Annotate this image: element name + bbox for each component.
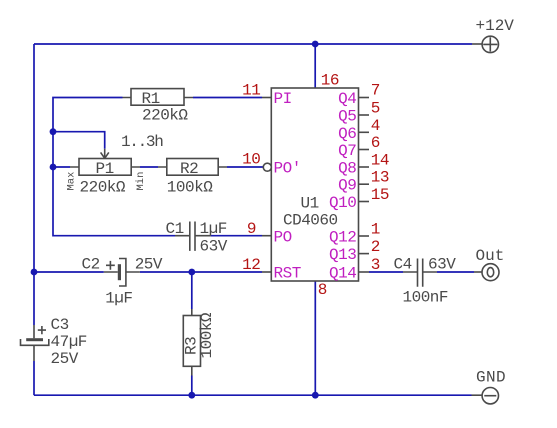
value C2 25V xyxy=(135,255,163,273)
pin Q8 stub xyxy=(338,160,369,178)
pin PO stub xyxy=(262,229,292,247)
pin number 7 xyxy=(371,81,380,99)
svg-text:7: 7 xyxy=(371,81,380,99)
pin Q13 stub xyxy=(329,246,369,264)
svg-text:1..3h: 1..3h xyxy=(121,133,163,151)
junction wiper branch xyxy=(50,128,57,135)
svg-text:P1: P1 xyxy=(96,160,114,178)
pin number 3 xyxy=(371,256,380,274)
svg-text:2: 2 xyxy=(371,238,380,256)
svg-text:1µF: 1µF xyxy=(105,290,132,308)
ground GND terminal xyxy=(472,369,507,404)
pin PO' bubble xyxy=(263,160,301,178)
supply +12V terminal xyxy=(472,17,514,52)
svg-text:11: 11 xyxy=(242,82,260,100)
svg-text:Q8: Q8 xyxy=(338,160,356,178)
svg-text:14: 14 xyxy=(371,152,389,170)
junction bottom rail R3 xyxy=(188,392,195,399)
label Min xyxy=(135,172,147,191)
svg-text:C4: C4 xyxy=(394,255,412,273)
wire C4 to Out xyxy=(437,271,474,273)
svg-text:220kΩ: 220kΩ xyxy=(80,179,126,197)
svg-text:12: 12 xyxy=(242,256,260,274)
svg-text:1: 1 xyxy=(371,221,380,239)
svg-text:Q7: Q7 xyxy=(338,142,356,160)
svg-text:Q12: Q12 xyxy=(329,229,356,247)
pin RST stub xyxy=(262,265,301,283)
value P1 220k xyxy=(80,179,126,197)
svg-text:Max: Max xyxy=(66,172,78,191)
label Max xyxy=(66,172,78,191)
junction C2 rail xyxy=(31,269,38,276)
svg-text:RST: RST xyxy=(274,265,301,283)
value R3 100k xyxy=(198,312,216,358)
wire pin8 drop xyxy=(314,281,316,395)
svg-text:100nF: 100nF xyxy=(403,289,449,307)
svg-text:+12V: +12V xyxy=(476,17,515,35)
svg-text:U1: U1 xyxy=(301,194,319,212)
wire C2 left from rail xyxy=(34,271,104,273)
svg-text:PI: PI xyxy=(274,90,292,108)
capacitor C4 xyxy=(394,255,438,287)
pin number 5 xyxy=(371,100,380,118)
wire R3 bottom drop xyxy=(191,376,193,396)
svg-text:C2: C2 xyxy=(82,255,100,273)
pin PI stub xyxy=(262,90,292,108)
svg-text:Q14: Q14 xyxy=(329,265,356,283)
pin number 9 xyxy=(247,220,256,238)
svg-text:13: 13 xyxy=(371,169,389,187)
pin number 2 xyxy=(371,238,380,256)
svg-text:Q6: Q6 xyxy=(338,125,356,143)
value C4 100nF xyxy=(403,289,449,307)
wire wiper branch xyxy=(53,132,105,149)
pin Q12 stub xyxy=(329,229,369,247)
value C2 1uF xyxy=(105,290,132,308)
svg-text:220kΩ: 220kΩ xyxy=(142,106,188,124)
svg-text:100kΩ: 100kΩ xyxy=(198,312,216,358)
svg-text:3: 3 xyxy=(371,256,380,274)
potentiometer P1 xyxy=(70,149,140,178)
junction R3 top xyxy=(188,269,195,276)
value C3 25V xyxy=(51,350,79,368)
svg-text:10: 10 xyxy=(242,151,260,169)
pin number 15 xyxy=(371,186,389,204)
pin Q5 stub xyxy=(338,108,369,126)
resistor R2 xyxy=(158,159,227,178)
svg-text:PO': PO' xyxy=(274,160,301,178)
svg-text:5: 5 xyxy=(371,100,380,118)
pin 16 top xyxy=(321,71,339,89)
svg-text:8: 8 xyxy=(318,281,327,299)
value C3 47uF xyxy=(51,333,87,351)
pin number 4 xyxy=(371,117,380,135)
svg-text:PO: PO xyxy=(274,229,292,247)
wire bottom rail GND xyxy=(34,394,472,396)
svg-text:63V: 63V xyxy=(200,238,228,256)
capacitor C1 xyxy=(166,220,211,251)
wire pin16 drop xyxy=(314,44,316,88)
capacitor C3 polarized xyxy=(21,316,69,361)
value R2 100k xyxy=(167,179,213,197)
pin Q4 stub xyxy=(338,90,369,108)
svg-text:15: 15 xyxy=(371,186,389,204)
svg-text:25V: 25V xyxy=(135,255,163,273)
wire P1 to R2 xyxy=(140,166,158,168)
svg-text:6: 6 xyxy=(371,134,380,152)
svg-text:47µF: 47µF xyxy=(51,333,87,351)
junction P1 left branch xyxy=(50,164,57,171)
svg-text:63V: 63V xyxy=(428,255,456,273)
value C1 1uF xyxy=(200,220,227,238)
svg-text:Q10: Q10 xyxy=(329,194,356,212)
svg-text:Min: Min xyxy=(135,172,147,191)
svg-text:Q13: Q13 xyxy=(329,246,356,264)
svg-text:CD4060: CD4060 xyxy=(283,211,338,229)
wire R2 to pin10 xyxy=(227,166,263,168)
svg-text:GND: GND xyxy=(476,369,506,387)
svg-text:Out: Out xyxy=(476,247,505,265)
svg-text:R2: R2 xyxy=(180,160,198,178)
value R1 220k xyxy=(142,106,188,124)
svg-text:1µF: 1µF xyxy=(200,220,227,238)
svg-text:Q4: Q4 xyxy=(338,90,356,108)
pin 8 bottom xyxy=(318,281,327,299)
wire top rail VCC xyxy=(34,43,472,45)
wire C2 right to RST pin12 xyxy=(140,271,262,273)
wire left rail lower xyxy=(33,361,35,395)
resistor R1 xyxy=(123,89,194,108)
wire P1 left branch xyxy=(53,166,70,168)
wire R1 net left xyxy=(53,98,175,236)
op-amp U1 CD4060 IC body xyxy=(271,88,358,281)
wire R1 right to pin11 xyxy=(193,97,262,99)
capacitor C2 polarized xyxy=(82,255,140,286)
svg-text:16: 16 xyxy=(321,71,339,89)
pin Q10 stub xyxy=(329,194,369,212)
pin Q6 stub xyxy=(338,125,369,143)
svg-text:Q9: Q9 xyxy=(338,177,356,195)
value C4 63V xyxy=(428,255,456,273)
pin number 1 xyxy=(371,221,380,239)
pin Q9 stub xyxy=(338,177,369,195)
svg-text:9: 9 xyxy=(247,220,256,238)
pin number 14 xyxy=(371,152,389,170)
resistor R3 xyxy=(183,309,201,376)
label 1..3h xyxy=(121,133,163,151)
svg-text:4: 4 xyxy=(371,117,380,135)
pin number 10 xyxy=(242,151,260,169)
value CD4060 xyxy=(283,211,338,229)
wire R3 top drop xyxy=(191,272,193,309)
junction top rail to pin16 xyxy=(312,41,319,48)
svg-text:R1: R1 xyxy=(142,90,160,108)
node Out terminal xyxy=(474,247,504,281)
svg-text:25V: 25V xyxy=(51,350,79,368)
junction bottom rail pin8 xyxy=(312,392,319,399)
svg-text:C1: C1 xyxy=(166,220,184,238)
pin number 13 xyxy=(371,169,389,187)
wire Q14 pin3 to C4 xyxy=(369,271,403,273)
svg-text:C3: C3 xyxy=(51,316,69,334)
wire left rail upper xyxy=(33,44,35,325)
pin number 6 xyxy=(371,134,380,152)
wire C1 right to pin9 xyxy=(210,235,262,237)
value C1 63V xyxy=(200,238,228,256)
pin number 12 xyxy=(242,256,260,274)
pin Q7 stub xyxy=(338,142,369,160)
pin number 11 xyxy=(242,82,260,100)
pin Q14 stub xyxy=(329,265,369,283)
svg-text:100kΩ: 100kΩ xyxy=(167,179,213,197)
svg-text:Q5: Q5 xyxy=(338,108,356,126)
